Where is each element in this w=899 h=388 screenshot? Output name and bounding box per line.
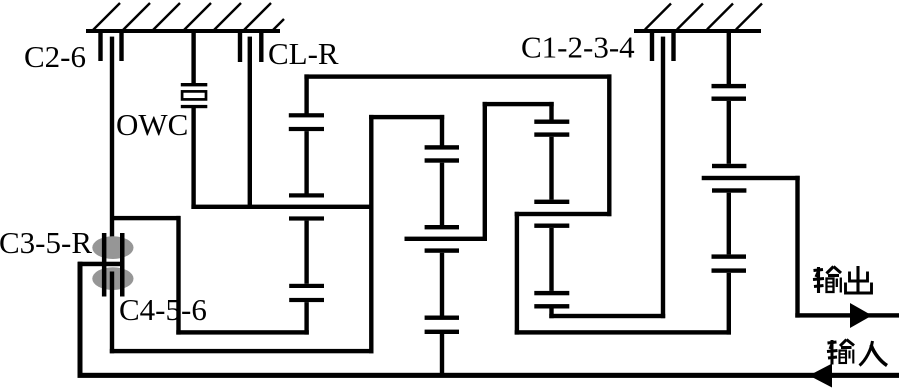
char CHU of output bbox=[846, 266, 872, 293]
clutch C3-5-R plates bbox=[102, 233, 107, 297]
gear mesh P2 top plates bbox=[425, 145, 459, 149]
wire vertical x609.3 bbox=[607, 74, 611, 216]
gear mesh P3 middle plate lower bbox=[534, 224, 569, 228]
wire line y238.8 x404.5-x487 bbox=[405, 237, 488, 241]
svg-text:C4-5-6: C4-5-6 bbox=[119, 292, 207, 327]
wire P1 shaft mid bbox=[304, 131, 308, 193]
gearset P3 column x551.5: top stub bbox=[549, 102, 553, 120]
char SHU of output bbox=[813, 267, 841, 294]
one-way clutch OWC symbol bbox=[181, 83, 208, 108]
char SHU of input bbox=[827, 340, 854, 365]
gear mesh P2 bottom plates bbox=[425, 316, 459, 320]
gear mesh P3 top plates bbox=[534, 120, 569, 124]
hatching left casing bbox=[93, 3, 284, 30]
clutch C3-5-R hub bar bbox=[78, 262, 125, 267]
gear mesh P4 top plates bbox=[712, 84, 747, 88]
casing ground bar right bbox=[634, 29, 761, 33]
gear mesh P4 middle plate lower bbox=[712, 188, 746, 192]
wire line y332 left segment x178-x306 bbox=[176, 330, 308, 334]
gearset P4 column x728.8: top stub from casing bbox=[727, 33, 731, 84]
wire line y351 x112-x372 bbox=[110, 349, 374, 353]
wire P4 shaft lower bbox=[727, 193, 731, 255]
brake C2-6 plates bbox=[98, 33, 123, 61]
wire C3-5-R bottom shaft bbox=[110, 272, 114, 354]
gear mesh P3 bottom plates bbox=[534, 291, 569, 295]
wire P2 bottom stub to input line bbox=[440, 334, 444, 373]
wire P1 shaft lower bbox=[304, 221, 308, 284]
wire output vertical x797.5 bbox=[795, 176, 799, 318]
hatching right casing bbox=[645, 4, 762, 30]
wire vertical x516.9 bbox=[515, 212, 519, 335]
label output (hand-drawn CJK) bbox=[813, 266, 872, 293]
svg-text:OWC: OWC bbox=[116, 107, 188, 142]
gear mesh P1 top plates bbox=[289, 113, 324, 117]
wire top line y76.5 from P1 to x609 bbox=[304, 74, 611, 78]
wire input line y375.2 bbox=[78, 373, 899, 378]
gear mesh P2 middle plate upper bbox=[425, 225, 459, 229]
wire P3 bottom stub bbox=[549, 309, 553, 319]
wire shaft from C2-6 down to clutch C3-5-R bbox=[110, 37, 114, 257]
gear mesh P1 bottom plates bbox=[289, 284, 324, 288]
gear mesh P3 middle plate upper bbox=[534, 200, 569, 204]
wire vertical x371.3 bbox=[369, 115, 373, 353]
one-way clutch OWC shaft top bbox=[191, 33, 195, 84]
clutch C1-2-3-4 plates bbox=[650, 33, 676, 61]
casing ground bar left bbox=[86, 29, 280, 33]
input arrow head bbox=[809, 364, 832, 388]
wire line y332 right segment x516.9-x728.8 bbox=[515, 330, 731, 334]
wire horizontal net OWC/CL-R to vertical x371 (y206.8) bbox=[191, 205, 373, 209]
label input (hand-drawn CJK) bbox=[827, 340, 887, 366]
wire P1 bottom stub bbox=[304, 302, 308, 335]
wire P4 bottom stub to y332 bbox=[727, 273, 731, 335]
wire C1-2-3-4 shaft x663 down to y316 bbox=[661, 37, 665, 319]
wire vertical x484.8 bbox=[483, 102, 487, 241]
svg-text:CL-R: CL-R bbox=[268, 36, 339, 71]
wire vertical x80 hub to input bbox=[78, 262, 83, 378]
wire output line y178 x701.7-x799.7 bbox=[702, 176, 800, 180]
svg-text:C3-5-R: C3-5-R bbox=[0, 225, 92, 260]
wire P3 shaft mid bbox=[549, 137, 553, 200]
clutch C3-5-R friction pack upper bbox=[92, 236, 133, 259]
wire P3 shaft lower bbox=[549, 228, 553, 291]
char RU of input bbox=[860, 341, 888, 366]
gear mesh P4 middle plate upper bbox=[712, 164, 746, 168]
wire OWC shaft bottom bbox=[191, 108, 195, 210]
wire line y316 x549-x665 bbox=[549, 314, 665, 318]
wire P4 shaft mid bbox=[727, 101, 731, 164]
gearset P2 column x442: top stub bbox=[440, 115, 444, 147]
gear mesh P1 middle plates bbox=[289, 193, 324, 197]
wire P2 shaft mid bbox=[440, 163, 444, 227]
wire bridge y104 x485-x551.5 bbox=[483, 102, 554, 106]
brake CL-R plates bbox=[238, 33, 264, 62]
wire output line y315.4 bbox=[795, 313, 899, 317]
gear mesh P2 middle plate lower bbox=[425, 248, 459, 252]
svg-text:C2-6: C2-6 bbox=[24, 39, 86, 74]
clutch C3-5-R friction pack lower bbox=[92, 267, 133, 290]
wire branch y218 from shaft x112 to x178.5 bbox=[112, 216, 180, 220]
gear mesh P4 bottom plates bbox=[712, 254, 747, 258]
wire line y214 x514.7-x611.4 bbox=[515, 212, 612, 216]
gearset P1 column x306.6: top stub bbox=[304, 74, 308, 113]
wire P2 shaft lower bbox=[440, 253, 444, 316]
svg-text:C1-2-3-4: C1-2-3-4 bbox=[521, 30, 635, 65]
wire vertical x178.5 bbox=[176, 216, 180, 335]
wire bridge y117 x371-x442 bbox=[369, 115, 444, 119]
output arrow head bbox=[850, 303, 872, 328]
wire CL-R shaft bbox=[248, 37, 252, 209]
